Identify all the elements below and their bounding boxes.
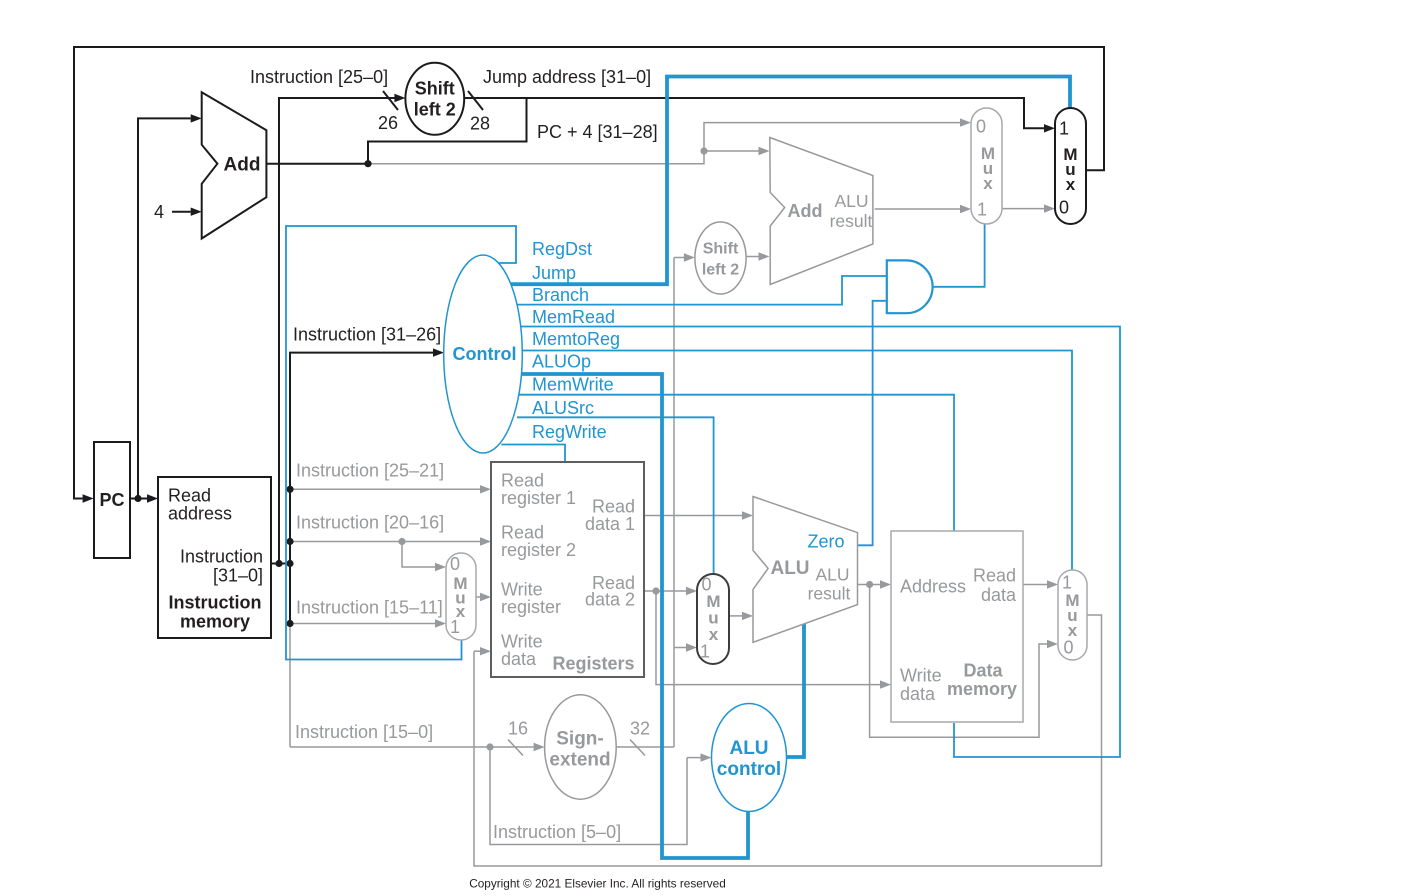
svg-text:Control: Control xyxy=(453,344,517,364)
wire: jump mux output around top to PC xyxy=(74,47,1104,499)
wire: MemRead control signal to Data memory bottom xyxy=(521,327,1120,758)
branch mux xyxy=(971,108,1002,224)
svg-text:x: x xyxy=(983,174,993,193)
svg-text:left 2: left 2 xyxy=(414,99,456,119)
wire: Zero flag from ALU to AND gate xyxy=(858,301,887,546)
svg-text:1: 1 xyxy=(977,199,987,219)
ALUSrc mux xyxy=(697,574,729,664)
svg-text:[31–0]: [31–0] xyxy=(213,565,263,585)
svg-text:x: x xyxy=(709,625,719,644)
svg-text:4: 4 xyxy=(154,202,164,222)
svg-text:0: 0 xyxy=(1063,637,1073,657)
wire: PC tap up to Add input xyxy=(138,118,191,498)
svg-text:Read: Read xyxy=(168,485,211,505)
AND gate (branch) xyxy=(887,260,933,313)
wire: Jump control signal (highlighted) to jump mux select xyxy=(510,77,1070,285)
svg-text:Add: Add xyxy=(224,155,261,176)
wire: Read data 1 to ALU input xyxy=(644,515,742,517)
svg-text:result: result xyxy=(808,584,851,604)
svg-text:0: 0 xyxy=(976,116,986,136)
svg-text:ALUSrc: ALUSrc xyxy=(532,398,594,418)
svg-text:Write: Write xyxy=(900,665,942,685)
svg-text:register 2: register 2 xyxy=(501,540,576,560)
svg-text:Jump: Jump xyxy=(532,263,576,283)
svg-text:Instruction [25–21]: Instruction [25–21] xyxy=(296,460,444,480)
svg-text:0: 0 xyxy=(450,554,460,574)
svg-text:Instruction: Instruction xyxy=(180,546,263,566)
svg-text:data: data xyxy=(501,649,537,669)
wire: instruction vertical below Instruction[15-11] tap (gray part) xyxy=(289,624,291,748)
svg-text:1: 1 xyxy=(1059,118,1069,138)
shift left 2 (jump) ellipse xyxy=(405,63,464,135)
svg-text:Jump address [31–0]: Jump address [31–0] xyxy=(483,67,651,87)
svg-text:ALU: ALU xyxy=(729,738,768,759)
wire: Instruction [15-0] to sign extend xyxy=(290,746,534,748)
svg-text:ALU: ALU xyxy=(770,558,809,579)
sign extend ellipse xyxy=(545,695,617,799)
wire: ALUOp control signal (highlighted) to ALU control xyxy=(520,374,748,858)
wire: sign-extend output riser to shift-left-2 (branch) xyxy=(673,258,675,748)
wire: ALU control output (highlighted) to ALU select xyxy=(786,624,804,757)
ALU main xyxy=(753,497,858,643)
svg-text:16: 16 xyxy=(508,718,528,738)
data memory box xyxy=(891,531,1023,722)
adder Add (PC+4) xyxy=(202,92,267,238)
svg-text:data: data xyxy=(900,684,936,704)
wire: ALU result to Data memory Address xyxy=(866,581,873,588)
wire: sign extend output xyxy=(616,746,674,748)
svg-text:Instruction [20–16]: Instruction [20–16] xyxy=(296,512,444,532)
wire: sign-extend output stub to ALUSrc mux input 1 xyxy=(674,647,686,649)
svg-text:26: 26 xyxy=(378,113,398,133)
slash 28-bit width mark xyxy=(468,91,483,110)
wire: Instruction [20-16] to Read register 2 xyxy=(290,541,480,543)
wire: Add output (PC+4) xyxy=(266,163,368,165)
svg-text:ALU: ALU xyxy=(815,565,849,585)
wire: Instruction [25-21] to Read register 1 xyxy=(290,488,480,490)
slash 26-bit width mark xyxy=(383,91,398,110)
svg-text:Instruction [15–0]: Instruction [15–0] xyxy=(295,722,433,742)
svg-text:Registers: Registers xyxy=(552,653,634,673)
jump mux (top right) xyxy=(1055,108,1086,224)
svg-text:control: control xyxy=(717,759,781,780)
registers box xyxy=(491,462,644,677)
svg-text:Instruction [15–11]: Instruction [15–11] xyxy=(296,597,443,617)
wire: PC output to instruction memory Read address xyxy=(130,498,147,500)
wire: instruction memory output xyxy=(271,563,290,565)
svg-text:Sign-: Sign- xyxy=(556,729,604,750)
wire: branch mux output to jump mux input 0 xyxy=(1002,208,1044,210)
svg-text:1: 1 xyxy=(700,641,710,661)
svg-text:data 2: data 2 xyxy=(585,589,635,609)
wire: Instruction [20-16] branch down to RegDst mux input 0 xyxy=(398,538,405,545)
wire: branch adder result to branch mux input 1 xyxy=(875,208,960,210)
svg-text:Instruction: Instruction xyxy=(169,592,262,612)
wire: MemWrite control signal to Data memory top xyxy=(519,395,954,531)
svg-text:Branch: Branch xyxy=(532,285,589,305)
svg-text:Instruction [31–26]: Instruction [31–26] xyxy=(293,324,441,344)
wire: Branch control signal to AND gate xyxy=(517,276,887,305)
svg-text:28: 28 xyxy=(470,113,490,133)
svg-text:memory: memory xyxy=(947,679,1017,699)
svg-text:MemtoReg: MemtoReg xyxy=(532,329,620,349)
ALU control ellipse xyxy=(712,704,787,812)
svg-text:left 2: left 2 xyxy=(702,262,739,279)
svg-text:Add: Add xyxy=(788,201,823,221)
RegDst mux xyxy=(446,553,476,640)
svg-text:MemRead: MemRead xyxy=(532,307,615,327)
svg-text:Copyright © 2021 Elsevier Inc.: Copyright © 2021 Elsevier Inc. All right… xyxy=(469,877,726,891)
svg-text:MemWrite: MemWrite xyxy=(532,374,614,394)
wire: PC+4 [31-28] up to join jump address xyxy=(368,98,527,164)
svg-text:data 1: data 1 xyxy=(585,514,635,534)
svg-text:register: register xyxy=(501,597,561,617)
svg-text:address: address xyxy=(168,503,232,523)
svg-text:32: 32 xyxy=(630,718,650,738)
wire: ALUSrc control signal to ALUSrc mux select xyxy=(517,417,714,574)
wire: RegDst mux output to Write register xyxy=(476,596,480,598)
svg-text:register 1: register 1 xyxy=(501,488,576,508)
svg-text:0: 0 xyxy=(1059,197,1069,217)
svg-text:Address: Address xyxy=(900,576,966,596)
svg-text:ALUOp: ALUOp xyxy=(532,351,591,371)
svg-text:1: 1 xyxy=(450,617,460,637)
svg-text:data: data xyxy=(981,585,1017,605)
svg-text:Instruction [5–0]: Instruction [5–0] xyxy=(493,822,621,842)
shift left 2 (branch) ellipse xyxy=(695,222,746,294)
svg-text:Read: Read xyxy=(973,565,1016,585)
wire: PC+4 from Add to branch adder and branch mux input 0 xyxy=(368,123,960,164)
svg-text:Data: Data xyxy=(963,660,1003,680)
svg-text:Instruction [25–0]: Instruction [25–0] xyxy=(250,67,388,87)
wire: write-back from MemtoReg mux to Registers Write data xyxy=(474,615,1102,866)
svg-text:x: x xyxy=(1066,175,1076,194)
wire: ALUSrc mux output to ALU input xyxy=(729,615,742,617)
svg-text:extend: extend xyxy=(549,750,610,771)
wire: instruction vertical to control (Instruction [31-26]) xyxy=(290,353,433,624)
instruction memory box xyxy=(158,477,271,638)
wire: Instruction [15-11] to RegDst mux input 1 xyxy=(290,623,435,625)
wire: constant 4 into Add xyxy=(172,211,191,213)
wire: jump address [31-0] from shift-left-2 to jump mux input 1 xyxy=(464,98,1044,128)
svg-text:PC + 4 [31–28]: PC + 4 [31–28] xyxy=(537,122,658,142)
slash 16-bit width mark xyxy=(508,740,523,756)
wire: AND gate output to branch mux select xyxy=(933,224,985,287)
svg-text:Shift: Shift xyxy=(703,241,739,258)
wire: MemtoReg control signal to MemtoReg mux select xyxy=(521,351,1072,571)
wire: shift-left-2 (branch) output to branch adder bottom input xyxy=(746,256,759,258)
wire: Instruction [5-0] to ALU control xyxy=(490,747,687,845)
wire: RegWrite control signal to Registers xyxy=(501,445,565,463)
slash 32-bit width mark xyxy=(630,740,645,756)
wire: Read data 2 to ALUSrc mux input 0 xyxy=(644,590,686,592)
svg-text:RegWrite: RegWrite xyxy=(532,422,607,442)
wire: Data memory Read data to MemtoReg mux input 1 xyxy=(1023,584,1047,586)
register PC xyxy=(94,442,130,558)
svg-text:Shift: Shift xyxy=(415,78,455,98)
adder Add (branch) xyxy=(770,138,873,285)
svg-text:memory: memory xyxy=(180,611,250,631)
svg-text:ALU: ALU xyxy=(834,191,868,211)
wire: shift-left-2 (branch) input xyxy=(674,257,684,259)
svg-text:Zero: Zero xyxy=(807,531,844,551)
svg-text:result: result xyxy=(830,211,873,231)
wire: ALU result loop to MemtoReg mux input 0 xyxy=(870,585,1047,738)
wire: Read data 2 down to Data memory Write data xyxy=(656,591,880,685)
svg-text:RegDst: RegDst xyxy=(532,239,592,259)
wire: Instruction [25-0] up from instruction fetch to shift-left-2 xyxy=(279,98,396,564)
wire: PC+4 tap into branch adder top input xyxy=(704,150,759,152)
svg-text:1: 1 xyxy=(1062,572,1072,592)
svg-text:PC: PC xyxy=(99,490,124,510)
control unit ellipse xyxy=(444,255,523,453)
MemtoReg mux xyxy=(1058,570,1087,660)
wire: RegDst control signal to RegDst mux select xyxy=(286,226,516,660)
